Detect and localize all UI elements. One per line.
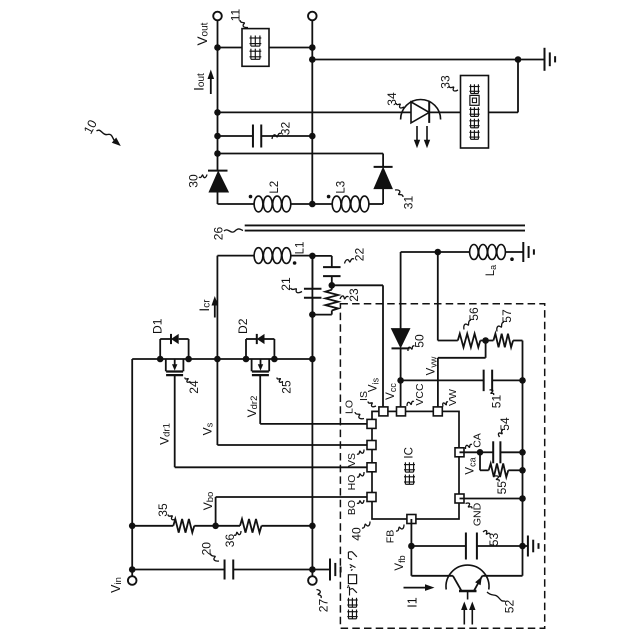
label D2 [236,318,250,334]
node dot cap51 right [519,377,526,384]
label Vca [465,457,478,474]
pin FB [407,515,416,524]
svg-text:30: 30 [187,174,201,188]
leader 21 [291,288,303,293]
arrow Iout [208,70,215,95]
control IC box 40 [372,411,459,519]
label VS [346,453,358,467]
svg-text:HO: HO [346,475,358,491]
leader HO [357,472,364,477]
wire cap21 lower [311,298,313,359]
wire to VW pin [437,358,439,408]
diode D30 cathode bar [208,170,228,172]
node dot R36 right [309,523,316,530]
wire to R56 [438,340,458,342]
phototransistor Q52 light arrow 1 [461,602,467,625]
node dot R55 right [519,467,526,474]
wire D1 gate Vdr1 [174,375,176,467]
wire reg33 to gnd line [489,111,519,113]
wire GND pin to right bus [460,498,523,500]
label 30 [187,174,201,188]
wire divider mid jog [438,341,486,358]
node dot CA [477,449,484,456]
wire cap54 to right bus [500,451,522,453]
ground control block [528,536,539,557]
label 40 [350,527,364,541]
wire Vbo to BO pin [216,496,367,498]
wire L1 right [291,255,312,257]
label I1 [406,597,420,607]
svg-text:GND: GND [472,502,484,526]
label IS [358,391,370,401]
label Vdr1 [158,423,173,445]
rail wire half-bridge [132,358,312,360]
phototransistor Q52 base stub [467,592,469,600]
svg-text:23: 23 [347,288,361,302]
leader 34 [396,103,404,108]
label LO [344,400,356,414]
inductor La [470,245,506,260]
phototransistor Q52 emitter [474,576,482,591]
polarity dot L2 [249,195,253,199]
label Vis [368,377,381,392]
resistor R57 [493,334,513,348]
label 制御IC [404,447,416,484]
pin GND [455,494,464,503]
terminal Vout- [308,12,317,21]
MOSFET Q24 (D1) [160,334,188,375]
wire D2 gate Vdr2 [259,375,261,424]
leader 22 [345,259,355,264]
leader 30 [199,175,207,178]
leader 24 [185,378,191,383]
node dot Vbo [212,523,219,530]
label Vin [109,577,124,593]
node dot cap22/R23/Vis [329,282,336,289]
wire Vcc to cap51 [401,379,484,381]
wire La to diode50 [400,252,402,329]
wire R55 to right bus [508,469,522,471]
diode D31 cathode bar [374,166,393,168]
label 20 [200,542,214,556]
svg-text:D2: D2 [236,318,250,334]
wire cap20 right [233,569,312,571]
node dot R35 left [129,523,136,530]
node dot cap32 left [214,133,221,140]
diode D50 [392,329,410,348]
wire to diode31 [218,153,384,155]
node dot R23 bottom return [309,311,316,318]
label 制御ブロック [347,552,357,619]
node dot secondary centre tap [309,201,316,208]
leader arrow 10 [97,130,121,146]
wire R57 to right bus [513,340,522,342]
wire diode30 to L2 [218,192,254,204]
wire Vs vertical (Icr path) [216,256,218,445]
leader 52 [487,592,506,602]
wire LED to reg33 [429,111,460,113]
leader 54 [498,430,503,437]
label 34 [385,92,399,106]
wire Vdr2 to LO pin [260,423,367,425]
wire right output bus [311,20,313,204]
leader 40 [362,522,370,529]
arrow I1 [404,584,435,591]
node dot diode31 line [214,150,221,157]
wire bus to R35 [132,525,173,527]
capacitor C53 [466,533,477,560]
leader 51 [490,390,494,395]
label 24 [187,380,201,394]
leader 55 [495,476,499,482]
wire output ground line [312,59,544,61]
ground La [523,242,534,262]
node dot gnd line on Vout- bus [309,56,316,63]
terminal Vin+ [128,576,137,585]
wire Vbo vertical [215,497,217,526]
node dot Vw tap [435,249,442,256]
label 10 [81,118,100,137]
leader CA [465,444,472,449]
wire R56 to R57 [480,340,493,342]
leader 27 [317,590,322,599]
label 35 [156,503,170,517]
label 21 [279,277,293,291]
wire cap22 branch [312,256,331,267]
label Vbo [201,492,216,511]
capacitor C20 [225,560,234,580]
label 57 [500,309,514,323]
phototransistor Q52 light arrow 2 [469,602,475,625]
leader 56 [464,320,471,330]
svg-text:VCC: VCC [414,383,426,406]
wire Vs to VS pin [217,444,367,446]
wire R36 to Vin- bus [262,525,313,527]
capacitor C21 [304,289,322,298]
label 56 [467,307,481,321]
label Vvw [426,356,439,375]
transformer core 26 [245,225,525,230]
control block dashed boundary [340,304,544,629]
LED D34 triangle [411,102,429,123]
capacitor C22 [323,267,341,276]
inductor L2 [254,196,291,212]
phototransistor Q52 base bar [459,590,477,592]
label 25 [280,380,294,394]
label Vout [195,22,210,45]
pin VW [433,407,442,416]
node dot Vin- ground [309,566,316,573]
pin VS [367,441,376,450]
leader 25 [277,378,283,383]
wire L1 left to Vs node [217,255,254,257]
leader 11 [240,20,248,28]
label 定電圧回路 [469,84,479,139]
wire L3 to diode31 [369,189,383,204]
leader 53 [483,531,490,535]
resistor R56 [458,334,481,348]
wire Vin- bus [311,256,313,576]
svg-text:26: 26 [212,227,226,241]
wire cap53 to right bus [477,545,523,547]
svg-text:27: 27 [317,599,331,613]
load box 11 [242,29,269,67]
svg-text:34: 34 [385,92,399,106]
polarity dot L3 [327,195,331,199]
leader 31 [395,190,403,197]
wire gnd stub Vin- [312,569,329,571]
leader 36 [234,531,241,535]
svg-text:33: 33 [439,75,453,89]
label Iout [192,73,207,91]
svg-text:57: 57 [500,309,514,323]
wire gnd stub control [523,545,528,547]
capacitor C32 [253,125,261,148]
label Vdr2 [245,396,260,418]
wire cap21 upper [311,256,313,288]
LED D34 light arrow 2 [424,126,430,148]
node dot load / Vout- bus [309,44,316,51]
label La [485,265,498,276]
svg-text:CA: CA [472,433,484,448]
label Vcc [385,383,398,400]
pin VCC [397,407,406,416]
phototransistor Q52 circle [446,565,489,589]
wire Vfb to cap53 [411,545,465,547]
leader 33 [449,86,458,91]
leader IS [368,402,376,407]
svg-text:FB: FB [385,530,397,543]
node dot LED line [214,109,221,116]
node dot cap53 right [519,543,526,550]
diode D30 [209,172,228,192]
svg-text:54: 54 [498,417,512,431]
svg-text:51: 51 [490,395,504,409]
label 55 [495,481,509,495]
node dot resonant node [309,253,316,260]
svg-text:L3: L3 [336,181,348,194]
wire diode50 to VCC pin [400,348,402,407]
LED D34 light arrow 1 [414,126,420,148]
constant voltage circuit box 33 [461,76,489,149]
label L2 [269,181,281,194]
wire cap51 to right bus [492,379,522,381]
wire cap32 left [218,135,253,137]
svg-text:LO: LO [344,400,356,414]
svg-text:22: 22 [353,248,367,262]
svg-text:VW: VW [447,389,459,406]
wire CA to cap54 [480,451,493,453]
label BO [346,500,358,515]
leader 23 [340,296,349,299]
svg-text:56: 56 [467,307,481,321]
leader 20 [211,554,220,562]
svg-text:20: 20 [200,542,214,556]
node dot Vcc [397,377,404,384]
label 27 [317,599,331,613]
wire Vout+ to load [218,47,243,49]
wire cap32 right [261,135,312,137]
node dot cap20 left [129,566,136,573]
wire R35 to Vbo node [194,525,240,527]
wire diode31 cathode [382,154,384,167]
inductor L3 [332,196,369,212]
label 26 [212,227,226,241]
label D1 [150,318,164,334]
label 54 [498,417,512,431]
node dot D2 right [271,356,278,363]
label FB [385,530,397,543]
svg-text:55: 55 [495,481,509,495]
pin IS [379,407,388,416]
leader VS [357,450,364,455]
node dot D2 left [243,356,250,363]
label L1 [295,242,307,255]
resistor R23 [325,285,338,314]
leader BO [357,500,364,503]
wire Vis horizontal [332,284,383,286]
arrow Icr [212,296,219,318]
svg-text:L2: L2 [269,181,281,194]
phototransistor Q52 collector [453,576,461,591]
node dot D1 right [185,356,192,363]
pin LO [367,419,376,428]
label Vfb [394,555,407,570]
label 11 [229,8,243,21]
wire CA down to R55 [480,452,489,470]
capacitor C51 [484,370,493,392]
terminal Vin- [308,576,317,585]
label 23 [347,288,361,302]
wire control right bus [522,341,524,576]
pin CA [455,448,464,457]
wire left Vin+ bus [131,359,133,576]
wire reg33 riser [517,60,519,113]
svg-text:31: 31 [402,196,416,210]
leader 32 [272,133,281,139]
svg-text:40: 40 [350,527,364,541]
pin HO [367,463,376,472]
label 53 [487,533,501,547]
svg-text:I1: I1 [406,597,420,607]
label 52 [503,600,517,614]
wire CA pin to node [460,451,481,453]
label VW [447,389,459,406]
label 50 [413,334,427,348]
terminal Vout+ [213,12,222,21]
svg-text:11: 11 [229,8,243,21]
svg-text:53: 53 [487,533,501,547]
leader VW [443,402,448,407]
node dot GND right [519,495,526,502]
node dot switch node on rail [214,356,221,363]
polarity dot La [510,257,514,261]
node dot D1 left [157,356,164,363]
MOSFET Q25 (D2) [246,334,274,375]
diode D50 cathode bar [392,347,410,349]
polarity dot L1 [293,261,297,265]
wire La right [506,251,523,253]
leader FB [396,525,404,532]
pin BO [367,493,376,502]
wire R23 bottom return [312,314,331,316]
svg-text:BO: BO [346,500,358,515]
label CA [472,433,484,448]
capacitor C54 [493,441,500,463]
label Vs [201,422,216,435]
wire Vfb to phototransistor [411,575,453,577]
leader VCC [407,401,414,406]
label 22 [353,248,367,262]
resistor R55 [489,464,509,478]
wire left output bus upper [217,20,219,170]
LED D34 circle arc [401,100,441,120]
wire Vw tap vertical [437,252,439,341]
node dot Vfb [408,543,415,550]
wire Vis vertical to IS pin [382,285,384,407]
label 36 [223,534,237,548]
wire La left [401,251,470,253]
wire Vdr1 to HO pin [175,466,367,468]
label Icr [197,299,212,312]
leader GND [466,503,473,509]
node dot R56/R57 [482,337,489,344]
node dot Vout+ / load [214,44,221,51]
resistor R35 [173,519,194,533]
svg-text:D1: D1 [150,318,164,334]
wire load to Vout- bus [269,47,312,49]
leader LO [355,412,364,419]
wire cap22 to R23 node [331,276,333,285]
label 32 [279,122,293,136]
leader 50 [408,346,415,351]
label VCC [414,383,426,406]
wire FB pin down [410,519,412,576]
label GND [472,502,484,526]
node dot cap54 right [519,449,526,456]
inductor L1 [254,248,291,264]
wire L2 to L3 [291,203,332,205]
node dot reg33 return [515,56,522,63]
diode D31 [374,168,392,189]
label 51 [490,395,504,409]
wire cap20 left [132,569,224,571]
ground primary [330,559,341,581]
svg-text:VS: VS [346,453,358,467]
wire right bus to phototransistor [482,575,522,577]
label 33 [439,75,453,89]
leader 35 [168,515,176,520]
resistor R36 [240,519,262,533]
svg-text:IC: IC [404,447,416,459]
node dot cap32 right [309,133,316,140]
node dot rail to Vin- bus [309,356,316,363]
wire LED line from Vout+ bus [218,111,412,113]
label 31 [402,196,416,210]
ground secondary [545,48,556,71]
svg-text:L1: L1 [295,242,307,255]
LED D34 cathode bar [428,102,430,123]
leader 57 [497,322,504,332]
label HO [346,475,358,491]
label L3 [336,181,348,194]
label 負荷 [250,36,262,60]
leader 26 [224,229,243,232]
